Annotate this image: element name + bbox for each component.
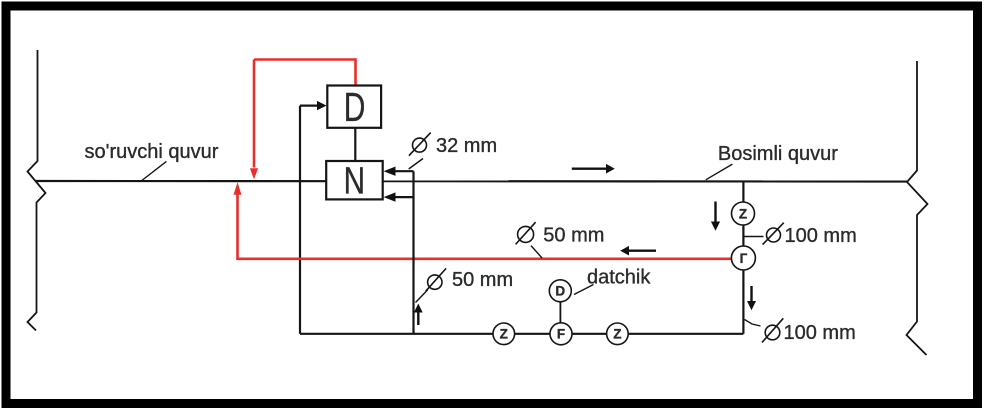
svg-text:Bosimli quvur: Bosimli quvur bbox=[718, 143, 838, 165]
red return line: up arrow at pipe, down and right to valve G bbox=[234, 182, 732, 258]
label diameter 100 mm upper bbox=[763, 223, 857, 247]
label so'ruvchi quvur bbox=[85, 141, 219, 163]
valve Z2 on bottom rail bbox=[607, 323, 629, 345]
red drop line with down arrow into pipe bbox=[250, 60, 258, 180]
connector sensor D to F bbox=[559, 302, 561, 323]
main suction/pressure pipe bbox=[36, 180, 907, 183]
flow arrow up on V2 bbox=[414, 304, 423, 326]
connector D to N bbox=[354, 128, 356, 161]
vertical line V1 from D-feed to bottom rail bbox=[299, 106, 301, 334]
label diameter 50 mm (red line) leader bbox=[531, 246, 542, 259]
flow arrow down beside valve line bbox=[711, 202, 720, 231]
svg-text:100 mm: 100 mm bbox=[785, 225, 857, 247]
vertical line V2 down to bottom rail bbox=[412, 171, 414, 334]
svg-text:50 mm: 50 mm bbox=[452, 269, 513, 291]
label datchik leader bbox=[574, 285, 594, 295]
flow arrow down below valve G bbox=[747, 286, 756, 310]
label so'ruvchi quvur leader bbox=[142, 161, 167, 180]
svg-text:50 mm: 50 mm bbox=[543, 225, 604, 247]
label diameter 50 mm (V2) bbox=[426, 268, 513, 291]
svg-text:D: D bbox=[555, 284, 565, 299]
label Bosimli quvur leader bbox=[706, 164, 733, 180]
valve G (gidravlik) on branch bbox=[731, 246, 755, 270]
red impulse line top (to D box) bbox=[254, 60, 356, 85]
svg-text:D: D bbox=[344, 84, 366, 130]
label diameter 50 mm (V2) leader bbox=[416, 290, 428, 303]
label diameter 100 mm upper leader bbox=[743, 236, 763, 238]
label diameter 50 mm (red line) bbox=[516, 222, 605, 246]
pipe break symbol right bbox=[907, 61, 928, 355]
svg-text:so'ruvchi quvur: so'ruvchi quvur bbox=[85, 141, 219, 163]
svg-text:Г: Г bbox=[740, 251, 748, 266]
label datchik bbox=[587, 267, 651, 289]
valve branch line (right vertical) bbox=[742, 181, 744, 334]
svg-text:F: F bbox=[557, 327, 565, 342]
svg-text:N: N bbox=[344, 160, 365, 202]
bottom rail bbox=[300, 333, 743, 335]
sensor D (datchik) circle bbox=[549, 280, 571, 302]
valve Z on branch bbox=[732, 202, 755, 225]
flowmeter F on bottom rail bbox=[550, 323, 572, 345]
label diameter 32 mm bbox=[409, 133, 497, 158]
N feed line upper with left arrow bbox=[384, 167, 414, 176]
D-feed line with arrow into D box bbox=[300, 101, 327, 110]
flow arrow left above red return line bbox=[620, 246, 656, 256]
label diameter 32 mm leader bbox=[409, 159, 423, 170]
svg-text:32 mm: 32 mm bbox=[436, 135, 497, 157]
svg-text:Z: Z bbox=[500, 327, 508, 342]
box D (datchik block) bbox=[327, 84, 381, 130]
svg-text:100 mm: 100 mm bbox=[784, 322, 856, 344]
label Bosimli quvur bbox=[718, 143, 838, 165]
valve Z1 on bottom rail bbox=[493, 323, 515, 345]
svg-text:Z: Z bbox=[739, 207, 747, 222]
box N (nasos/pump block) bbox=[326, 160, 383, 202]
svg-text:datchik: datchik bbox=[587, 267, 651, 289]
svg-text:Z: Z bbox=[613, 327, 621, 342]
label diameter 100 mm lower leader bbox=[745, 320, 761, 327]
N feed line lower with left arrow bbox=[384, 192, 414, 201]
pipe break symbol left bbox=[28, 50, 46, 331]
label diameter 100 mm lower bbox=[762, 318, 856, 344]
flow arrow right on pressure pipe bbox=[572, 164, 615, 174]
